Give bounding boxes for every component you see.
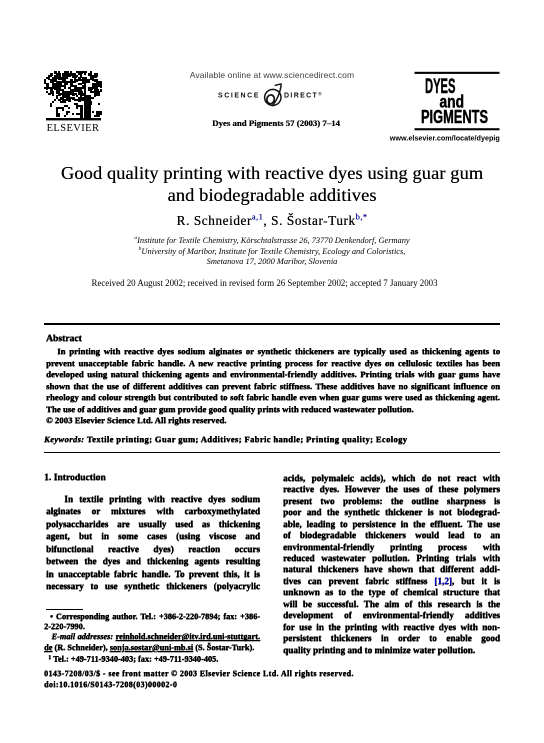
citation line <box>0 118 544 128</box>
Dyes and Pigments journal logo box <box>385 70 510 145</box>
Left column paragraph <box>46 493 260 593</box>
Keywords <box>44 434 407 444</box>
svg-text:www.elsevier.com/locate/dyepig: www.elsevier.com/locate/dyepig <box>389 135 500 142</box>
second rule <box>44 452 500 454</box>
Abstract heading <box>46 333 82 344</box>
svg-text:DIRECT®: DIRECT® <box>284 91 323 100</box>
trunk <box>84 95 91 119</box>
Abstract body <box>46 346 500 426</box>
Title <box>0 163 544 207</box>
Footnotes <box>44 612 260 665</box>
ELSEVIER tree logo <box>44 71 102 133</box>
Authors <box>0 213 544 229</box>
Section heading <box>44 472 106 483</box>
Available online <box>0 70 544 80</box>
Right column paragraph <box>283 473 500 656</box>
Affiliations <box>0 236 544 267</box>
tree crown noise <box>44 71 103 117</box>
ground line <box>46 118 101 120</box>
Bottom ISSN block <box>44 669 474 689</box>
ScienceDirect logo <box>210 82 334 112</box>
Footnote rule <box>46 609 83 610</box>
svg-text:PIGMENTS: PIGMENTS <box>421 107 488 127</box>
svg-text:SCIENCE: SCIENCE <box>218 93 260 100</box>
Received line <box>0 278 537 288</box>
top rule <box>44 323 500 325</box>
